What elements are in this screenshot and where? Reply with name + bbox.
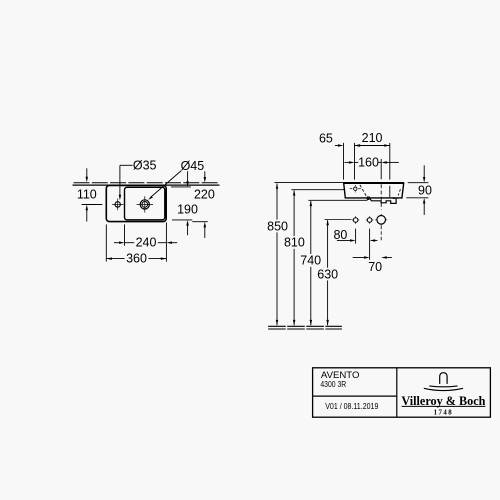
dimension 110 text <box>77 188 97 202</box>
dimension 630 <box>326 220 329 326</box>
extension line fixing hole left <box>355 229 357 244</box>
title block vertical divider <box>396 368 398 417</box>
dimension 220 text <box>194 188 215 202</box>
logo 1748 <box>434 410 454 417</box>
leader Ø35 <box>119 165 133 200</box>
fixing lug right <box>393 197 395 199</box>
leader Ø45 <box>148 171 181 200</box>
dimension 160 arrows <box>345 161 399 164</box>
dimension 70 text <box>368 260 382 274</box>
svg-text:190: 190 <box>177 203 198 217</box>
drain outlet circle <box>375 214 387 226</box>
tap hole Ø35 (plan) <box>112 199 124 211</box>
basin bowl inner outline <box>125 187 165 220</box>
washbasin outline (plan view) <box>106 185 166 221</box>
extension line tap hole (front) <box>354 143 356 180</box>
svg-text:90: 90 <box>418 183 432 197</box>
dimension 630 text <box>317 267 338 281</box>
dimension 850 text <box>267 219 288 233</box>
svg-text:220: 220 <box>194 188 215 202</box>
svg-text:4300 3R: 4300 3R <box>320 380 346 389</box>
extension line basin right <box>165 222 167 261</box>
extension line basin bottom right <box>406 197 428 199</box>
dimension 220 arrows <box>204 171 207 238</box>
extension line fixing hole right <box>369 229 371 260</box>
dimension 850 <box>276 183 278 325</box>
floor line <box>268 326 342 329</box>
extension line rim height 850 <box>274 181 343 183</box>
overflow line <box>389 186 391 197</box>
dimension 190 arrows <box>186 171 189 235</box>
dimension 190 text <box>177 203 198 217</box>
title block frame <box>313 368 491 417</box>
extension line 210 right <box>389 143 391 180</box>
label Ø45 <box>181 159 205 173</box>
svg-text:110: 110 <box>77 188 97 202</box>
dimension 210 line+arrows <box>355 144 390 147</box>
bowl top extension line <box>171 186 191 188</box>
svg-text:65: 65 <box>319 132 333 146</box>
dimension 65 arrows <box>335 144 363 147</box>
dimension 240 text <box>136 236 157 250</box>
title block horizontal divider <box>313 395 397 397</box>
extension line 810 <box>291 189 344 191</box>
model number 4300 3R <box>320 380 346 389</box>
extension line basin left <box>105 224 107 261</box>
tap hole symbol (front) <box>350 185 361 192</box>
extension line tap-hole centre <box>82 204 103 206</box>
logo underline <box>402 405 486 407</box>
svg-text:210: 210 <box>362 131 383 145</box>
dimension 65 text <box>319 132 333 146</box>
version date V01 / 08.11.2019 <box>325 402 378 411</box>
extension line rim top right <box>408 182 429 184</box>
dimension 740 text <box>300 254 321 268</box>
dimension 210 text <box>362 131 383 145</box>
Villeroy & Boch logo arch <box>440 373 447 384</box>
drain hole Ø45 (plan) <box>137 196 153 212</box>
dimension 810 <box>293 190 296 326</box>
fixing hole right <box>366 216 373 223</box>
svg-text:160: 160 <box>358 156 379 170</box>
dimension 90 text <box>418 183 432 197</box>
svg-text:740: 740 <box>300 254 321 268</box>
svg-text:Villeroy & Boch: Villeroy & Boch <box>401 394 485 408</box>
dimension 740 <box>310 201 313 326</box>
fixing hole left <box>352 216 359 223</box>
dimension 80 text <box>333 228 347 242</box>
extension line bowl left <box>124 224 126 245</box>
svg-text:Ø45: Ø45 <box>181 159 205 173</box>
svg-text:240: 240 <box>136 236 157 250</box>
svg-text:630: 630 <box>317 267 338 281</box>
washbasin outline (front view) <box>344 183 404 198</box>
wall face line (plan view) <box>73 184 220 186</box>
svg-text:V01 / 08.11.2019: V01 / 08.11.2019 <box>325 402 378 411</box>
drain fitting outline <box>370 199 396 204</box>
svg-text:80: 80 <box>333 228 347 242</box>
svg-text:850: 850 <box>267 219 288 233</box>
Villeroy & Boch wordmark <box>401 394 485 408</box>
dimension 240 line+arrows <box>114 241 177 244</box>
dimension 360 line+arrows <box>106 257 166 260</box>
svg-text:70: 70 <box>368 260 382 274</box>
dimension 80 arrows <box>337 239 378 242</box>
svg-text:Ø35: Ø35 <box>133 159 157 173</box>
dimension 160 text <box>358 156 379 170</box>
extension line 630 <box>325 219 352 221</box>
bowl hidden contour bottom <box>367 196 370 198</box>
wall hatch line (plan view) <box>74 182 220 184</box>
extension line basin left edge (front) <box>343 143 345 180</box>
svg-text:810: 810 <box>284 236 305 250</box>
dimension 90 arrows <box>423 165 426 215</box>
dimension 110 arrows <box>86 168 89 221</box>
Villeroy & Boch logo swoosh lower <box>424 388 463 390</box>
fixing lug left <box>367 199 370 200</box>
bowl hidden contour left <box>360 185 367 196</box>
extension line drain (front) <box>380 159 382 179</box>
product name AVENTO <box>321 370 360 381</box>
label Ø35 <box>133 159 157 173</box>
bowl bottom extension line <box>172 219 192 221</box>
svg-text:360: 360 <box>126 252 147 266</box>
dimension 810 text <box>284 236 305 250</box>
drain centreline dashed <box>380 184 382 241</box>
basin bottom extension line <box>192 221 207 223</box>
dimension 70 arrows <box>353 256 392 259</box>
Villeroy & Boch logo swoosh upper <box>429 385 457 388</box>
extension line 740 <box>308 199 367 201</box>
svg-text:1748: 1748 <box>434 410 454 417</box>
bowl hidden contour right <box>398 189 400 195</box>
dimension 360 text <box>126 252 147 266</box>
